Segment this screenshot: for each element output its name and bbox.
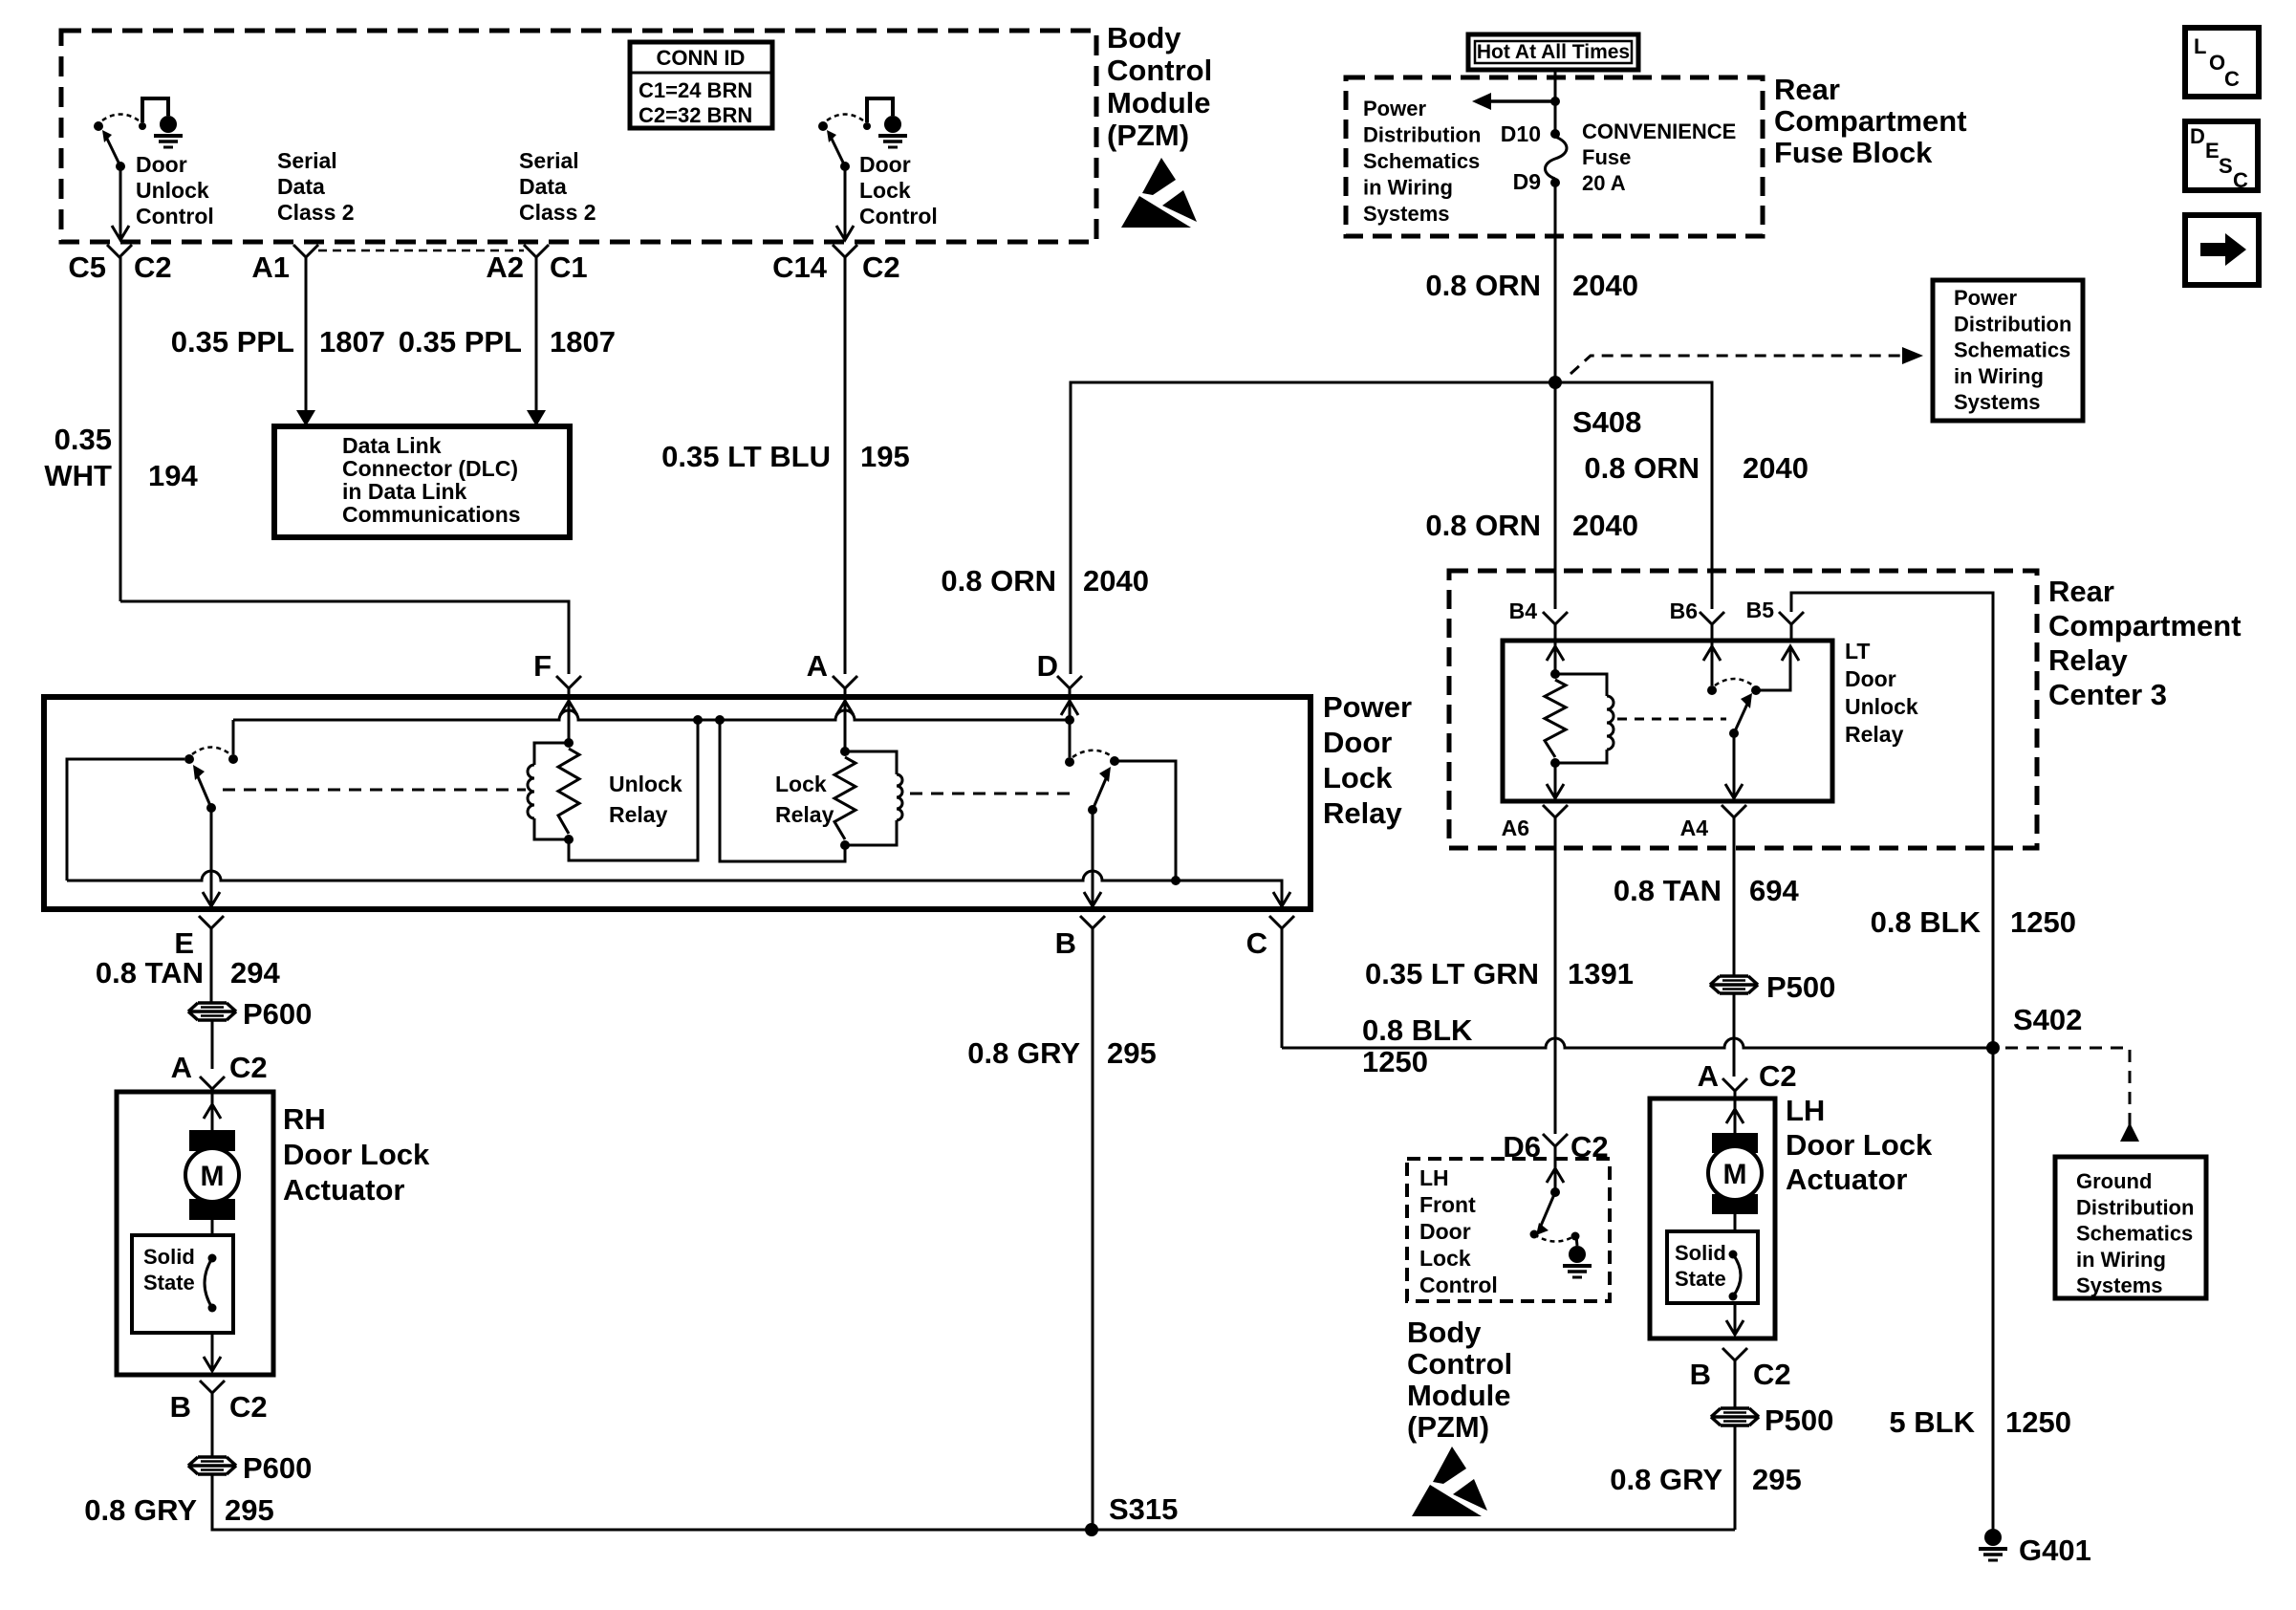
svg-text:Relay: Relay bbox=[1323, 796, 1402, 830]
svg-text:Relay: Relay bbox=[2048, 643, 2128, 677]
svg-text:Ground: Ground bbox=[2076, 1169, 2152, 1193]
svg-text:1807: 1807 bbox=[550, 325, 616, 359]
svg-text:P600: P600 bbox=[243, 997, 312, 1031]
svg-text:Distribution: Distribution bbox=[1954, 312, 2071, 336]
svg-text:Unlock: Unlock bbox=[1845, 694, 1918, 719]
svg-text:S315: S315 bbox=[1109, 1492, 1178, 1526]
svg-text:C14: C14 bbox=[772, 250, 828, 284]
svg-text:in Data Link: in Data Link bbox=[342, 479, 467, 504]
svg-text:Relay: Relay bbox=[609, 802, 668, 827]
svg-text:1807: 1807 bbox=[319, 325, 385, 359]
svg-text:Center 3: Center 3 bbox=[2048, 678, 2167, 711]
svg-text:A: A bbox=[1698, 1059, 1719, 1093]
svg-text:Door: Door bbox=[1323, 726, 1392, 759]
svg-text:0.8 TAN: 0.8 TAN bbox=[1614, 874, 1722, 907]
svg-text:P600: P600 bbox=[243, 1451, 312, 1485]
svg-text:LH: LH bbox=[1419, 1165, 1449, 1190]
svg-text:S408: S408 bbox=[1572, 405, 1641, 439]
svg-text:Systems: Systems bbox=[1363, 202, 1450, 226]
svg-text:295: 295 bbox=[225, 1493, 274, 1527]
svg-text:Fuse: Fuse bbox=[1582, 145, 1631, 169]
svg-text:C2: C2 bbox=[1753, 1358, 1791, 1391]
svg-text:Control: Control bbox=[136, 204, 214, 228]
svg-text:Actuator: Actuator bbox=[1786, 1163, 1907, 1196]
svg-text:0.8 GRY: 0.8 GRY bbox=[1610, 1463, 1722, 1496]
svg-text:D10: D10 bbox=[1501, 121, 1541, 146]
svg-text:B: B bbox=[170, 1390, 191, 1424]
svg-text:20 A: 20 A bbox=[1582, 171, 1626, 195]
svg-text:Lock: Lock bbox=[775, 772, 827, 796]
svg-text:S402: S402 bbox=[2013, 1003, 2082, 1036]
svg-text:C2: C2 bbox=[229, 1390, 268, 1424]
svg-text:Door: Door bbox=[859, 152, 911, 177]
svg-text:0.8 ORN: 0.8 ORN bbox=[1425, 509, 1541, 542]
svg-text:C2: C2 bbox=[229, 1051, 268, 1084]
svg-text:0.35 PPL: 0.35 PPL bbox=[399, 325, 522, 359]
svg-text:Compartment: Compartment bbox=[1774, 104, 1967, 138]
svg-text:Schematics: Schematics bbox=[2076, 1222, 2193, 1246]
svg-text:C5: C5 bbox=[68, 250, 106, 284]
svg-text:Serial: Serial bbox=[277, 148, 337, 173]
svg-text:0.35 LT BLU: 0.35 LT BLU bbox=[661, 440, 831, 473]
svg-text:B5: B5 bbox=[1746, 598, 1775, 622]
svg-text:A2: A2 bbox=[486, 250, 524, 284]
svg-text:Distribution: Distribution bbox=[2076, 1195, 2194, 1219]
svg-text:(PZM): (PZM) bbox=[1407, 1410, 1489, 1444]
svg-text:P500: P500 bbox=[1766, 970, 1835, 1004]
svg-text:Control: Control bbox=[1419, 1273, 1498, 1297]
svg-text:M: M bbox=[1723, 1159, 1747, 1190]
svg-text:Fuse Block: Fuse Block bbox=[1774, 136, 1933, 169]
svg-text:0.8 TAN: 0.8 TAN bbox=[96, 956, 204, 990]
svg-text:Door: Door bbox=[1419, 1219, 1471, 1244]
svg-text:1250: 1250 bbox=[2005, 1405, 2071, 1439]
svg-text:0.8 ORN: 0.8 ORN bbox=[1584, 451, 1700, 485]
svg-text:194: 194 bbox=[148, 459, 198, 492]
svg-text:E: E bbox=[2205, 139, 2220, 163]
svg-text:G401: G401 bbox=[2019, 1534, 2091, 1567]
svg-text:2040: 2040 bbox=[1743, 451, 1809, 485]
svg-text:Door: Door bbox=[136, 152, 187, 177]
svg-text:B6: B6 bbox=[1670, 598, 1698, 623]
svg-text:C2=32 BRN: C2=32 BRN bbox=[639, 103, 752, 127]
svg-text:C2: C2 bbox=[134, 250, 172, 284]
svg-text:1391: 1391 bbox=[1568, 957, 1634, 990]
svg-text:Distribution: Distribution bbox=[1363, 123, 1481, 147]
svg-text:Control: Control bbox=[859, 204, 938, 228]
svg-text:A1: A1 bbox=[251, 250, 290, 284]
svg-text:D9: D9 bbox=[1513, 169, 1541, 194]
svg-text:B: B bbox=[1055, 926, 1076, 960]
svg-text:A4: A4 bbox=[1680, 816, 1709, 840]
svg-text:Connector (DLC): Connector (DLC) bbox=[342, 456, 518, 481]
svg-text:State: State bbox=[1675, 1267, 1726, 1291]
svg-text:State: State bbox=[143, 1271, 195, 1295]
svg-text:2040: 2040 bbox=[1572, 509, 1638, 542]
svg-text:0.35: 0.35 bbox=[54, 423, 112, 456]
svg-text:C1=24 BRN: C1=24 BRN bbox=[639, 78, 752, 102]
svg-text:in Wiring: in Wiring bbox=[1954, 364, 2044, 388]
svg-text:Rear: Rear bbox=[2048, 575, 2114, 608]
svg-text:Front: Front bbox=[1419, 1192, 1476, 1217]
svg-text:Class 2: Class 2 bbox=[519, 200, 596, 225]
svg-text:D: D bbox=[2190, 124, 2205, 148]
svg-text:Relay: Relay bbox=[1845, 722, 1904, 747]
svg-text:Power: Power bbox=[1363, 97, 1426, 120]
svg-text:295: 295 bbox=[1752, 1463, 1802, 1496]
svg-text:M: M bbox=[201, 1161, 225, 1192]
svg-text:A: A bbox=[807, 649, 828, 683]
svg-text:0.8 GRY: 0.8 GRY bbox=[84, 1493, 197, 1527]
svg-text:Control: Control bbox=[1107, 54, 1212, 87]
svg-text:5 BLK: 5 BLK bbox=[1889, 1405, 1975, 1439]
svg-text:Systems: Systems bbox=[2076, 1273, 2163, 1297]
svg-text:Solid: Solid bbox=[143, 1245, 195, 1269]
svg-text:Schematics: Schematics bbox=[1954, 338, 2070, 362]
svg-text:2040: 2040 bbox=[1083, 564, 1149, 598]
svg-text:CONVENIENCE: CONVENIENCE bbox=[1582, 120, 1736, 143]
svg-text:Power: Power bbox=[1954, 286, 2017, 310]
svg-text:0.8 GRY: 0.8 GRY bbox=[967, 1036, 1080, 1070]
svg-text:Module: Module bbox=[1107, 86, 1211, 120]
svg-text:A: A bbox=[171, 1051, 192, 1084]
svg-text:Lock: Lock bbox=[859, 178, 911, 203]
svg-text:LH: LH bbox=[1786, 1094, 1825, 1127]
svg-text:1250: 1250 bbox=[1362, 1045, 1428, 1078]
svg-text:Power: Power bbox=[1323, 690, 1412, 724]
svg-text:B4: B4 bbox=[1509, 598, 1538, 623]
svg-text:0.8 BLK: 0.8 BLK bbox=[1362, 1013, 1473, 1047]
svg-text:0.8 ORN: 0.8 ORN bbox=[1425, 269, 1541, 302]
svg-text:C2: C2 bbox=[1759, 1059, 1797, 1093]
svg-text:0.35 LT GRN: 0.35 LT GRN bbox=[1365, 957, 1539, 990]
svg-text:F: F bbox=[533, 649, 552, 683]
svg-text:Serial: Serial bbox=[519, 148, 579, 173]
svg-text:0.8 BLK: 0.8 BLK bbox=[1871, 905, 1982, 939]
svg-text:Body: Body bbox=[1407, 1316, 1482, 1349]
svg-text:CONN ID: CONN ID bbox=[657, 46, 746, 70]
svg-text:Rear: Rear bbox=[1774, 73, 1840, 106]
svg-text:Lock: Lock bbox=[1419, 1246, 1471, 1271]
svg-text:Class 2: Class 2 bbox=[277, 200, 355, 225]
svg-text:P500: P500 bbox=[1765, 1403, 1833, 1437]
svg-text:O: O bbox=[2209, 51, 2225, 75]
svg-text:Door Lock: Door Lock bbox=[283, 1138, 430, 1171]
svg-text:L: L bbox=[2194, 34, 2206, 58]
svg-text:C: C bbox=[2224, 67, 2240, 91]
svg-text:694: 694 bbox=[1749, 874, 1799, 907]
svg-text:2040: 2040 bbox=[1572, 269, 1638, 302]
svg-text:Lock: Lock bbox=[1323, 761, 1393, 794]
svg-text:1250: 1250 bbox=[2010, 905, 2076, 939]
svg-text:195: 195 bbox=[860, 440, 910, 473]
svg-text:Unlock: Unlock bbox=[136, 178, 209, 203]
svg-text:Module: Module bbox=[1407, 1379, 1511, 1412]
svg-text:Systems: Systems bbox=[1954, 390, 2041, 414]
svg-text:C1: C1 bbox=[550, 250, 588, 284]
svg-text:Door: Door bbox=[1845, 666, 1896, 691]
svg-text:A6: A6 bbox=[1502, 816, 1529, 840]
svg-text:RH: RH bbox=[283, 1102, 326, 1136]
svg-text:0.8 ORN: 0.8 ORN bbox=[941, 564, 1056, 598]
svg-text:Schematics: Schematics bbox=[1363, 149, 1480, 173]
svg-text:C: C bbox=[2233, 168, 2248, 192]
svg-text:Data: Data bbox=[277, 174, 325, 199]
svg-text:Solid: Solid bbox=[1675, 1241, 1726, 1265]
svg-text:0.35 PPL: 0.35 PPL bbox=[171, 325, 294, 359]
svg-text:D: D bbox=[1037, 649, 1058, 683]
svg-text:C2: C2 bbox=[862, 250, 900, 284]
svg-text:Communications: Communications bbox=[342, 502, 521, 527]
svg-text:C: C bbox=[1246, 926, 1267, 960]
svg-text:(PZM): (PZM) bbox=[1107, 119, 1189, 152]
svg-text:B: B bbox=[1690, 1358, 1711, 1391]
svg-text:Control: Control bbox=[1407, 1347, 1512, 1381]
svg-text:WHT: WHT bbox=[44, 459, 112, 492]
svg-text:Data: Data bbox=[519, 174, 567, 199]
svg-text:in Wiring: in Wiring bbox=[1363, 176, 1453, 200]
svg-text:Data Link: Data Link bbox=[342, 433, 442, 458]
svg-text:295: 295 bbox=[1107, 1036, 1157, 1070]
svg-text:Unlock: Unlock bbox=[609, 772, 682, 796]
svg-text:Relay: Relay bbox=[775, 802, 834, 827]
svg-text:LT: LT bbox=[1845, 639, 1870, 664]
svg-text:Actuator: Actuator bbox=[283, 1173, 404, 1207]
svg-text:Body: Body bbox=[1107, 21, 1181, 54]
svg-text:Hot At All Times: Hot At All Times bbox=[1477, 41, 1630, 63]
svg-text:S: S bbox=[2219, 154, 2233, 178]
svg-text:in Wiring: in Wiring bbox=[2076, 1248, 2166, 1272]
svg-text:294: 294 bbox=[230, 956, 280, 990]
svg-text:Door Lock: Door Lock bbox=[1786, 1128, 1933, 1162]
svg-text:Compartment: Compartment bbox=[2048, 609, 2242, 642]
svg-text:E: E bbox=[174, 926, 194, 960]
